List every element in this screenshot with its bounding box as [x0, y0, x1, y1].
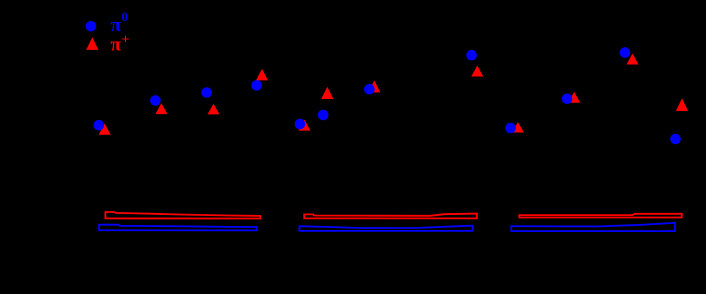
systematic band pi0 panel 1	[99, 225, 257, 231]
pi0 data circle 2	[150, 95, 161, 106]
systematic band pi0 panel 2	[299, 226, 472, 231]
pi0 data circle 7	[364, 84, 375, 95]
pi0 data circle 5	[295, 119, 306, 130]
pi+ data triangle 12	[676, 98, 688, 111]
pi0 data circle 9	[505, 123, 516, 134]
legend label pi+	[111, 32, 130, 55]
pi+ data triangle 2	[155, 103, 167, 114]
svg-text:π: π	[111, 35, 122, 56]
legend marker pi+ triangle	[86, 37, 98, 50]
systematic band pi0 panel 3	[511, 223, 675, 231]
pi+ data triangle 5	[298, 120, 310, 131]
legend label pi0	[111, 9, 129, 36]
systematic band pi+ panel 1	[105, 212, 260, 219]
pi+ data triangle 1	[99, 124, 111, 135]
pi0 data circle 11	[620, 47, 631, 58]
pi0 data circle 3	[201, 87, 212, 98]
pi+ data triangle 11	[627, 54, 639, 65]
pi+ data triangle 10	[568, 92, 580, 103]
pi0 data circle 1	[94, 120, 105, 131]
pi0 data circle 10	[562, 94, 573, 105]
systematic band pi+ panel 3	[519, 214, 681, 218]
svg-text:π: π	[111, 15, 122, 36]
pi+ data triangle 9	[512, 122, 524, 133]
pi+ data triangle 4	[256, 69, 268, 81]
pi0 data circle 6	[318, 110, 329, 121]
pi+ data triangle 6	[321, 87, 333, 99]
pi+ data triangle 3	[208, 104, 220, 115]
systematic band pi+ panel 2	[304, 214, 477, 219]
pi+ data triangle 8	[471, 66, 483, 77]
pi0 data circle 12	[670, 134, 681, 145]
pi0 data circle 8	[466, 50, 477, 61]
pi+ data triangle 7	[368, 80, 380, 92]
pi0 data circle 4	[251, 80, 262, 91]
legend marker pi0 circle	[86, 21, 97, 32]
svg-text:0: 0	[122, 9, 129, 24]
svg-text:+: +	[122, 32, 130, 47]
